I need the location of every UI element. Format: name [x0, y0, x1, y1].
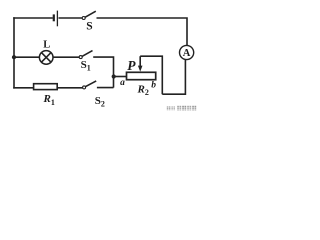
watermark: [166, 106, 197, 111]
rheostat wiper P arrow: [138, 56, 143, 71]
switch S2: [83, 81, 97, 89]
wire top-left from left rail to battery: [13, 17, 53, 19]
battery: [54, 11, 58, 27]
wire switch S to top-right corner: [97, 18, 188, 46]
rheostat R2 body: [127, 72, 156, 79]
wire ammeter down to bottom-right corner: [162, 60, 185, 95]
left rail wire: [13, 17, 15, 88]
switch S: [82, 11, 96, 19]
wire wiper to bottom-right: [140, 56, 162, 94]
resistor R1: [34, 84, 58, 90]
lamp L: [39, 51, 53, 65]
wire S2 row from R1 to S2: [57, 87, 83, 89]
svg-text:a: a: [120, 78, 125, 88]
svg-text:A: A: [183, 48, 191, 59]
wire S2 to middle vertical: [97, 87, 114, 89]
wire lamp row left: [14, 56, 40, 58]
wire node a to rheostat: [114, 76, 127, 78]
svg-text:P: P: [127, 58, 136, 73]
wire R1 row left: [13, 87, 34, 89]
ammeter A: [180, 45, 194, 59]
junction dot left rail lamp row: [12, 55, 16, 59]
svg-text:S: S: [86, 21, 92, 33]
wire lamp to switch S1: [53, 56, 79, 58]
junction dot node a: [112, 74, 116, 78]
switch S1: [79, 51, 92, 59]
wire S1 to middle vertical: [93, 57, 113, 88]
wire battery to switch S: [59, 17, 83, 19]
svg-text:b: b: [151, 81, 156, 91]
svg-text:L: L: [43, 40, 50, 51]
